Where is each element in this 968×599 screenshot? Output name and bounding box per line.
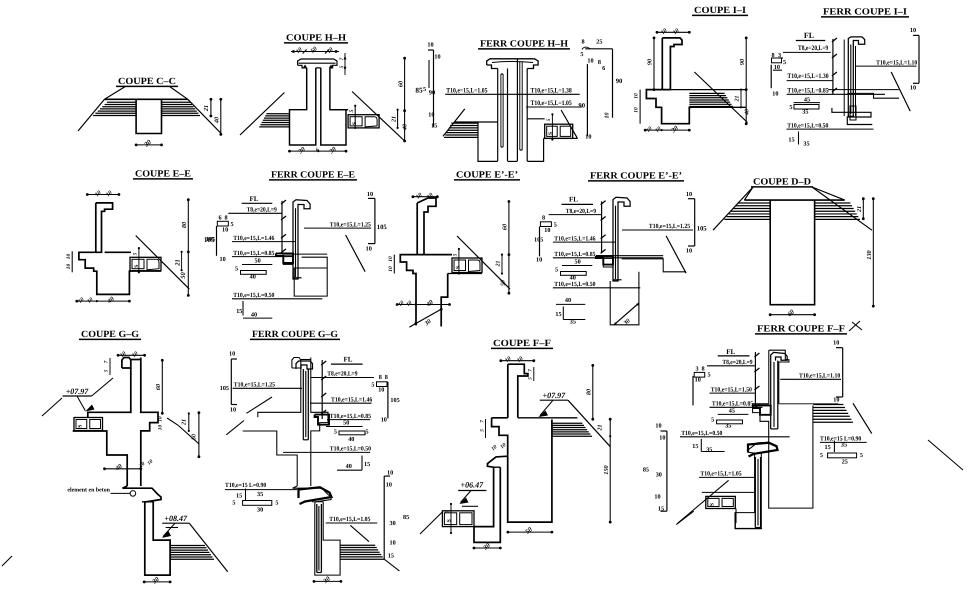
svg-text:15: 15: [658, 506, 664, 513]
svg-text:60: 60: [397, 81, 404, 87]
svg-text:T8,e=20,L=9: T8,e=20,L=9: [247, 207, 277, 214]
svg-text:5: 5: [480, 429, 486, 432]
svg-text:T10,e=15,L=0.50: T10,e=15,L=0.50: [233, 292, 274, 299]
svg-text:90: 90: [739, 59, 746, 65]
svg-text:130: 130: [866, 250, 873, 259]
svg-text:25: 25: [842, 459, 848, 466]
svg-text:30: 30: [390, 520, 396, 527]
svg-text:COUPE I–I: COUPE I–I: [694, 6, 746, 16]
svg-text:15: 15: [692, 443, 698, 450]
svg-text:FL: FL: [344, 356, 353, 364]
svg-text:10: 10: [388, 266, 394, 272]
svg-text:5: 5: [789, 104, 792, 111]
svg-text:35: 35: [802, 109, 808, 116]
svg-text:40: 40: [251, 312, 257, 319]
svg-text:21: 21: [857, 206, 863, 213]
svg-text:T10,e=15,L=1.10: T10,e=15,L=1.10: [799, 373, 840, 380]
svg-text:10: 10: [605, 113, 611, 119]
svg-text:FERR COUPE E’-E’: FERR COUPE E’-E’: [590, 172, 682, 182]
svg-text:S: S: [447, 519, 453, 522]
svg-text:21: 21: [203, 105, 210, 112]
svg-text:5: 5: [555, 267, 558, 274]
svg-text:40: 40: [250, 274, 256, 281]
svg-text:T10,e=15,L=1.05: T10,e=15,L=1.05: [329, 516, 370, 523]
svg-text:40: 40: [348, 436, 354, 443]
svg-text:25: 25: [596, 38, 602, 45]
svg-text:60: 60: [502, 224, 509, 230]
svg-text:50: 50: [501, 280, 507, 286]
svg-text:T10,e=15,L=1.05: T10,e=15,L=1.05: [700, 471, 741, 478]
svg-text:21: 21: [174, 259, 181, 267]
svg-text:T10,e=15,L=0.50: T10,e=15,L=0.50: [330, 446, 371, 453]
svg-text:10: 10: [910, 85, 916, 92]
svg-text:80: 80: [181, 222, 188, 228]
svg-text:5: 5: [232, 500, 235, 507]
svg-text:3: 3: [696, 366, 699, 373]
svg-text:105: 105: [390, 397, 399, 404]
svg-text:T10,e=15,L=0.85: T10,e=15,L=0.85: [554, 251, 595, 258]
svg-text:10: 10: [910, 27, 916, 34]
svg-text:FERR COUPE F–F: FERR COUPE F–F: [757, 325, 845, 335]
svg-text:10: 10: [655, 423, 661, 430]
svg-text:10: 10: [772, 91, 778, 98]
svg-text:10: 10: [587, 58, 593, 65]
svg-text:FERR COUPE I–I: FERR COUPE I–I: [823, 8, 907, 18]
svg-text:21: 21: [735, 96, 741, 103]
svg-text:8: 8: [542, 215, 545, 222]
svg-text:T10,e=15,L=0.50: T10,e=15,L=0.50: [554, 281, 595, 288]
svg-text:10: 10: [833, 397, 839, 404]
svg-text:10: 10: [536, 257, 542, 264]
svg-text:105: 105: [377, 224, 388, 231]
svg-text:10: 10: [387, 470, 393, 477]
svg-text:10: 10: [158, 416, 164, 422]
svg-text:T10,e=15,L=1.46: T10,e=15,L=1.46: [233, 235, 275, 242]
svg-text:COUPE G–G: COUPE G–G: [81, 330, 140, 340]
svg-text:5: 5: [580, 51, 583, 58]
svg-text:15: 15: [364, 461, 370, 468]
svg-text:10: 10: [659, 435, 665, 442]
svg-text:5: 5: [235, 266, 238, 273]
svg-text:10: 10: [66, 254, 72, 260]
svg-text:8: 8: [379, 374, 382, 381]
svg-text:T8,e=20,L=9: T8,e=20,L=9: [798, 45, 829, 52]
svg-text:FL: FL: [726, 348, 735, 356]
svg-text:10: 10: [220, 256, 226, 263]
svg-text:10: 10: [378, 387, 384, 394]
svg-text:S: S: [709, 503, 715, 506]
svg-text:T10,e=15,L=1.38: T10,e=15,L=1.38: [531, 88, 573, 95]
svg-text:5: 5: [334, 429, 337, 436]
svg-text:10: 10: [686, 248, 692, 255]
svg-text:5: 5: [820, 452, 823, 459]
svg-text:5: 5: [554, 222, 557, 229]
svg-text:5: 5: [104, 369, 110, 372]
svg-text:T10,e=15,L=1.25: T10,e=15,L=1.25: [649, 223, 690, 230]
svg-text:105: 105: [697, 226, 708, 233]
svg-text:10: 10: [158, 425, 164, 431]
svg-text:T10,e=15,L=1.05: T10,e=15,L=1.05: [531, 100, 573, 107]
svg-text:T8,e=20,L=9: T8,e=20,L=9: [566, 208, 596, 215]
svg-text:T10,e=15,L=1.05: T10,e=15,L=1.05: [446, 88, 488, 95]
svg-text:105: 105: [534, 237, 543, 244]
svg-text:21: 21: [392, 116, 398, 123]
svg-text:COUPE F–F: COUPE F–F: [493, 339, 551, 349]
svg-text:T8,e=20,L=9: T8,e=20,L=9: [722, 359, 752, 366]
svg-text:80: 80: [586, 389, 593, 395]
svg-text:6: 6: [602, 65, 605, 72]
svg-text:5: 5: [708, 372, 711, 379]
svg-text:21: 21: [182, 419, 188, 426]
svg-text:T10,e=15,L=0.85: T10,e=15,L=0.85: [233, 250, 274, 257]
svg-text:FL: FL: [804, 31, 814, 40]
svg-text:6: 6: [219, 215, 222, 222]
svg-text:10: 10: [230, 407, 236, 414]
svg-text:T10,e=15,L=1.25: T10,e=15,L=1.25: [234, 382, 275, 389]
svg-text:105: 105: [220, 385, 229, 392]
svg-text:15: 15: [431, 122, 437, 129]
svg-text:60: 60: [155, 384, 162, 390]
svg-text:15: 15: [236, 493, 242, 500]
svg-text:21: 21: [496, 261, 502, 268]
svg-text:5: 5: [366, 429, 369, 436]
svg-text:40: 40: [565, 297, 571, 304]
svg-text:10: 10: [367, 191, 373, 198]
svg-text:5: 5: [783, 59, 786, 66]
svg-text:105: 105: [206, 236, 215, 243]
svg-text:T10,e=15,L=1.30: T10,e=15,L=1.30: [787, 73, 829, 80]
svg-text:85: 85: [643, 467, 649, 474]
svg-text:10: 10: [427, 42, 433, 49]
svg-text:15: 15: [825, 444, 831, 451]
svg-text:15: 15: [236, 308, 242, 315]
svg-text:5: 5: [860, 452, 863, 459]
svg-text:+06.47: +06.47: [461, 481, 485, 490]
svg-text:10: 10: [229, 351, 235, 358]
svg-text:10: 10: [634, 107, 640, 113]
svg-text:T10,e=15,L=1.25: T10,e=15,L=1.25: [330, 221, 371, 228]
svg-text:7: 7: [480, 420, 486, 423]
svg-text:FL: FL: [250, 195, 259, 203]
svg-text:+07.97: +07.97: [543, 391, 567, 400]
svg-text:10: 10: [381, 417, 387, 424]
svg-text:COUPE C–C: COUPE C–C: [118, 77, 176, 87]
svg-text:90: 90: [616, 78, 623, 85]
svg-text:T10,e=15,L=1.10: T10,e=15,L=1.10: [876, 59, 917, 66]
svg-text:10: 10: [434, 54, 440, 61]
svg-text:150: 150: [603, 465, 610, 474]
svg-text:T10,e=15,L=0.50: T10,e=15,L=0.50: [787, 122, 828, 129]
svg-text:85: 85: [403, 514, 409, 521]
svg-text:10: 10: [390, 540, 396, 547]
svg-text:5: 5: [371, 382, 374, 389]
svg-text:COUPE E–E: COUPE E–E: [135, 170, 191, 180]
svg-text:85: 85: [415, 87, 423, 95]
svg-text:COUPE E’-E’: COUPE E’-E’: [456, 171, 518, 181]
svg-text:90: 90: [429, 90, 435, 97]
svg-text:5: 5: [711, 417, 714, 424]
svg-text:8: 8: [385, 374, 388, 381]
svg-text:5: 5: [453, 253, 459, 256]
svg-text:50: 50: [255, 258, 261, 265]
svg-text:5: 5: [275, 500, 278, 507]
svg-text:S: S: [548, 132, 554, 135]
svg-text:10: 10: [222, 227, 228, 234]
svg-text:50: 50: [192, 434, 198, 440]
svg-text:35: 35: [725, 423, 731, 430]
svg-text:8: 8: [702, 366, 705, 373]
svg-text:COUPE D–D: COUPE D–D: [753, 178, 811, 188]
svg-text:FERR COUPE E–E: FERR COUPE E–E: [271, 171, 355, 181]
svg-text:5: 5: [349, 109, 355, 112]
svg-text:5: 5: [231, 221, 234, 228]
svg-text:40: 40: [346, 463, 352, 470]
svg-text:T10,e=15,L=0.50: T10,e=15,L=0.50: [681, 430, 722, 437]
svg-text:5: 5: [546, 118, 552, 121]
svg-text:30: 30: [257, 507, 263, 514]
svg-text:5: 5: [445, 510, 451, 513]
svg-text:30: 30: [656, 472, 662, 479]
svg-text:15: 15: [555, 311, 561, 318]
svg-text:+08.47: +08.47: [164, 514, 188, 523]
svg-text:T10,e=15,L=1.50: T10,e=15,L=1.50: [711, 386, 752, 393]
svg-text:10: 10: [428, 112, 434, 119]
svg-text:15: 15: [388, 553, 394, 560]
svg-text:35: 35: [257, 491, 263, 498]
svg-text:5: 5: [423, 86, 426, 93]
svg-text:10: 10: [585, 134, 591, 141]
svg-text:50: 50: [575, 259, 581, 266]
svg-text:7: 7: [104, 360, 110, 363]
svg-text:10: 10: [388, 256, 394, 262]
svg-text:T10,e=15,L=0.85: T10,e=15,L=0.85: [787, 88, 829, 95]
svg-text:10: 10: [634, 93, 640, 99]
svg-text:5: 5: [528, 377, 534, 380]
svg-text:10: 10: [654, 494, 660, 501]
svg-text:T10,e=15,L=1.46: T10,e=15,L=1.46: [331, 396, 373, 403]
svg-text:10: 10: [386, 482, 392, 489]
svg-text:T8,e=20,L=9: T8,e=20,L=9: [327, 371, 357, 378]
svg-text:+07.97: +07.97: [66, 387, 90, 396]
svg-text:15: 15: [788, 137, 794, 144]
svg-text:90: 90: [578, 103, 585, 110]
svg-text:40: 40: [403, 124, 409, 131]
svg-text:50: 50: [180, 272, 187, 279]
svg-text:35: 35: [803, 141, 809, 148]
svg-text:35: 35: [841, 442, 847, 449]
svg-text:10: 10: [544, 227, 550, 234]
svg-text:10: 10: [366, 246, 372, 253]
svg-text:21: 21: [598, 425, 604, 432]
svg-text:element en beton: element en beton: [67, 487, 110, 494]
svg-text:40: 40: [745, 109, 751, 116]
svg-text:FERR COUPE G–G: FERR COUPE G–G: [252, 330, 339, 340]
svg-text:T10,e=15,L=1.46: T10,e=15,L=1.46: [554, 235, 596, 242]
svg-text:S: S: [77, 425, 83, 428]
svg-text:10: 10: [686, 191, 692, 198]
svg-text:8: 8: [225, 215, 228, 222]
svg-text:10: 10: [695, 377, 701, 384]
svg-text:8: 8: [598, 59, 601, 66]
svg-text:40: 40: [214, 117, 221, 124]
svg-text:8: 8: [581, 38, 584, 45]
svg-text:7: 7: [528, 369, 534, 372]
svg-text:COUPE H–H: COUPE H–H: [286, 34, 347, 44]
svg-text:35: 35: [706, 447, 712, 454]
svg-text:T10,e=15 L=0.90: T10,e=15 L=0.90: [225, 482, 266, 489]
svg-text:5: 5: [133, 252, 139, 255]
svg-text:90: 90: [647, 59, 654, 65]
svg-text:10: 10: [833, 340, 839, 347]
svg-text:10: 10: [66, 264, 72, 270]
svg-text:FL: FL: [569, 196, 578, 204]
svg-text:50: 50: [343, 420, 349, 427]
svg-text:45: 45: [729, 407, 735, 414]
svg-text:FERR COUPE H–H: FERR COUPE H–H: [480, 40, 569, 50]
svg-text:T10,e=15,L=0.85: T10,e=15,L=0.85: [330, 413, 371, 420]
